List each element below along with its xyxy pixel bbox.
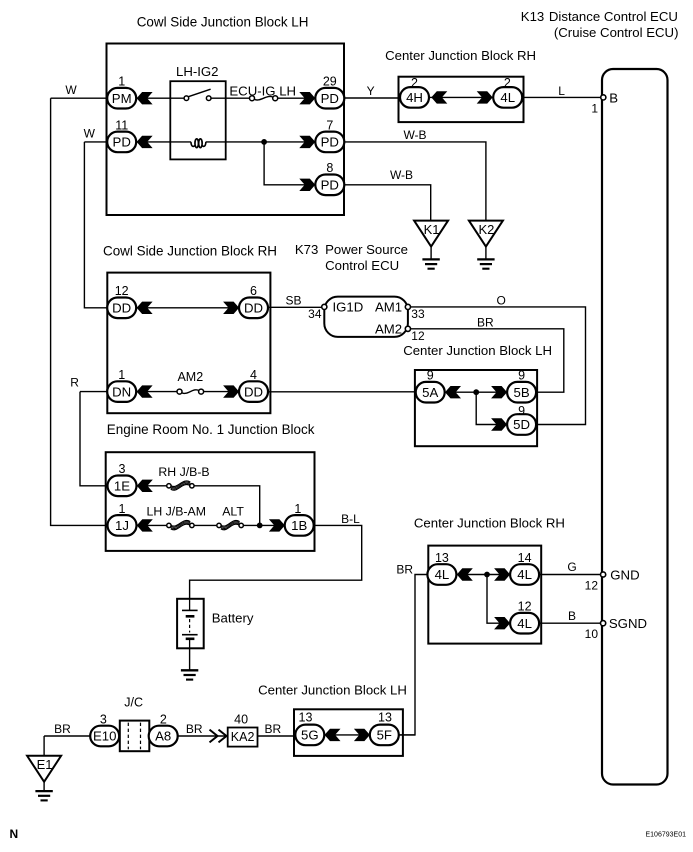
svg-text:N: N	[10, 827, 19, 841]
svg-text:5G: 5G	[301, 728, 319, 743]
svg-text:AM1: AM1	[375, 300, 402, 315]
svg-text:13: 13	[435, 551, 449, 565]
svg-text:E10: E10	[93, 729, 116, 744]
svg-text:Center Junction Block RH: Center Junction Block RH	[414, 515, 565, 530]
svg-text:1: 1	[118, 75, 125, 89]
svg-text:3: 3	[100, 712, 107, 726]
svg-text:2: 2	[411, 76, 418, 90]
svg-text:PD: PD	[113, 135, 131, 150]
svg-text:4: 4	[250, 368, 257, 382]
svg-text:5D: 5D	[513, 417, 530, 432]
svg-text:PD: PD	[321, 135, 339, 150]
svg-text:W: W	[84, 127, 96, 141]
svg-text:1B: 1B	[291, 518, 307, 533]
svg-text:E106793E01: E106793E01	[646, 831, 687, 838]
svg-text:IG1D: IG1D	[333, 300, 364, 315]
svg-text:LH J/B-AM: LH J/B-AM	[147, 505, 206, 519]
svg-text:W-B: W-B	[403, 128, 426, 142]
svg-text:8: 8	[326, 161, 333, 175]
svg-text:BR: BR	[264, 722, 281, 736]
svg-text:1: 1	[591, 102, 598, 116]
svg-text:Control ECU: Control ECU	[325, 258, 399, 273]
svg-text:4L: 4L	[517, 567, 532, 582]
svg-text:11: 11	[115, 118, 128, 132]
svg-text:DD: DD	[244, 301, 263, 316]
svg-text:R: R	[70, 375, 79, 389]
svg-text:O: O	[497, 293, 506, 307]
svg-text:9: 9	[427, 369, 434, 383]
svg-text:33: 33	[411, 307, 425, 321]
svg-text:K73: K73	[295, 242, 318, 257]
svg-text:14: 14	[518, 551, 532, 565]
svg-text:DN: DN	[112, 384, 131, 399]
svg-text:5F: 5F	[377, 728, 392, 743]
svg-text:2: 2	[504, 76, 511, 90]
svg-text:ECU-IG LH: ECU-IG LH	[229, 83, 296, 98]
svg-text:SB: SB	[285, 293, 301, 307]
svg-text:1E: 1E	[114, 479, 130, 494]
svg-text:K13: K13	[521, 9, 544, 24]
svg-text:4L: 4L	[500, 90, 515, 105]
svg-text:AM2: AM2	[375, 322, 402, 337]
svg-text:K2: K2	[478, 222, 494, 237]
svg-text:12: 12	[115, 284, 129, 298]
svg-text:J/C: J/C	[124, 695, 143, 709]
svg-text:ALT: ALT	[222, 505, 244, 519]
svg-text:A8: A8	[155, 729, 171, 744]
svg-text:13: 13	[299, 710, 313, 724]
svg-text:6: 6	[250, 284, 257, 298]
svg-text:E1: E1	[37, 757, 53, 772]
svg-text:3: 3	[119, 462, 126, 476]
svg-text:34: 34	[308, 307, 322, 321]
svg-text:10: 10	[585, 627, 599, 641]
svg-text:(Cruise Control ECU): (Cruise Control ECU)	[554, 25, 679, 40]
svg-text:BR: BR	[54, 722, 71, 736]
svg-text:5B: 5B	[514, 385, 530, 400]
svg-text:Engine Room No. 1 Junction Blo: Engine Room No. 1 Junction Block	[107, 422, 315, 437]
svg-text:G: G	[567, 560, 576, 574]
svg-text:DD: DD	[244, 384, 263, 399]
svg-text:W: W	[65, 83, 77, 97]
svg-text:K1: K1	[424, 222, 440, 237]
svg-text:Power Source: Power Source	[325, 242, 408, 257]
svg-text:Cowl Side Junction Block LH: Cowl Side Junction Block LH	[137, 14, 309, 29]
svg-text:B-L: B-L	[341, 512, 360, 526]
svg-text:BR: BR	[396, 562, 413, 576]
svg-text:SGND: SGND	[609, 616, 647, 631]
svg-text:Center Junction Block LH: Center Junction Block LH	[403, 343, 552, 358]
svg-text:1: 1	[294, 502, 301, 516]
svg-text:PM: PM	[112, 91, 132, 106]
svg-text:5A: 5A	[422, 385, 438, 400]
svg-text:GND: GND	[610, 567, 639, 582]
svg-text:Distance Control ECU: Distance Control ECU	[549, 9, 678, 24]
svg-text:9: 9	[518, 404, 525, 418]
svg-text:BR: BR	[477, 315, 494, 329]
svg-text:40: 40	[234, 712, 248, 726]
svg-text:B: B	[568, 609, 576, 623]
svg-text:29: 29	[323, 75, 337, 89]
svg-text:PD: PD	[321, 91, 339, 106]
svg-text:Cowl Side Junction Block RH: Cowl Side Junction Block RH	[103, 244, 277, 259]
svg-text:Y: Y	[367, 84, 375, 98]
svg-text:4L: 4L	[517, 616, 532, 631]
svg-text:9: 9	[518, 369, 525, 383]
svg-text:LH-IG2: LH-IG2	[176, 64, 219, 79]
svg-text:1J: 1J	[115, 518, 129, 533]
svg-text:L: L	[558, 84, 565, 98]
svg-text:PD: PD	[321, 178, 339, 193]
svg-text:12: 12	[518, 600, 532, 614]
svg-text:4L: 4L	[435, 567, 450, 582]
svg-text:B: B	[609, 91, 618, 106]
svg-text:BR: BR	[186, 722, 203, 736]
svg-text:DD: DD	[112, 301, 131, 316]
svg-text:2: 2	[160, 712, 167, 726]
svg-text:12: 12	[585, 578, 599, 592]
svg-text:RH J/B-B: RH J/B-B	[158, 465, 209, 479]
svg-text:W-B: W-B	[390, 168, 413, 182]
svg-text:7: 7	[326, 118, 333, 132]
svg-text:4H: 4H	[406, 90, 423, 105]
svg-text:12: 12	[411, 329, 425, 343]
svg-text:Center Junction Block RH: Center Junction Block RH	[385, 48, 536, 63]
svg-text:13: 13	[378, 710, 392, 724]
svg-text:1: 1	[118, 368, 125, 382]
svg-text:AM2: AM2	[177, 370, 203, 384]
svg-text:1: 1	[119, 502, 126, 516]
svg-text:Battery: Battery	[212, 610, 254, 625]
svg-text:KA2: KA2	[231, 730, 255, 744]
svg-text:Center Junction Block LH: Center Junction Block LH	[258, 682, 407, 697]
